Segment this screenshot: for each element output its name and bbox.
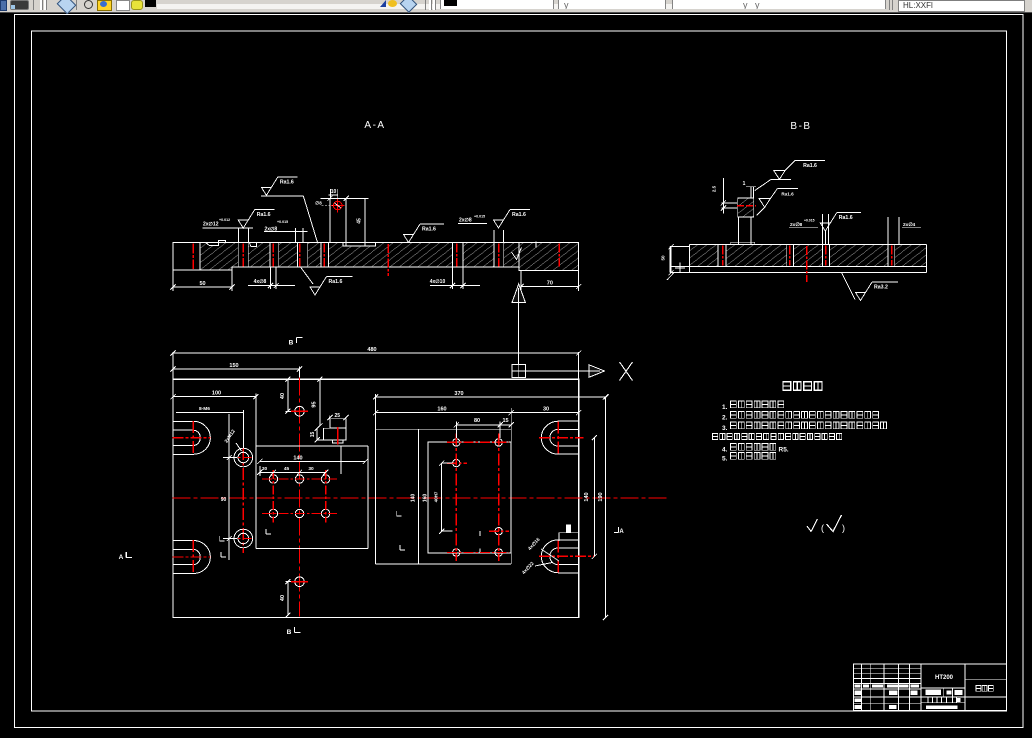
- svg-text:2x∅8: 2x∅8: [790, 222, 803, 228]
- svg-text:3.: 3.: [722, 425, 728, 432]
- B-B plate outline: [689, 244, 926, 246]
- B-B left dim 50: [670, 247, 672, 273]
- A-A dim 4x8: [269, 267, 271, 289]
- B-B dim 2x8: [821, 214, 823, 245]
- svg-text:50: 50: [199, 281, 205, 287]
- svg-text:160: 160: [423, 494, 429, 503]
- toolbar separator: [33, 0, 34, 10]
- svg-text:70: 70: [547, 281, 553, 287]
- A-A dim 70: [520, 271, 522, 292]
- toolbar separator: [425, 0, 426, 10]
- toolbar icon: black swatch: [145, 0, 156, 7]
- svg-text:Ra1.6: Ra1.6: [803, 163, 817, 169]
- svg-text:Ra1.6: Ra1.6: [839, 215, 853, 221]
- svg-text:30: 30: [262, 466, 268, 472]
- A-A dim 50: [172, 270, 174, 291]
- svg-text:80: 80: [474, 418, 480, 424]
- svg-text:30: 30: [308, 466, 314, 472]
- svg-text:A-A: A-A: [364, 120, 385, 131]
- toolbar combo 2: [558, 0, 666, 9]
- plan small boss rect: [330, 419, 346, 428]
- plan left slot top: [173, 421, 211, 454]
- surface symbol Ra1.6 #3 below bar: [301, 267, 314, 284]
- toolbar icon: yellow-blue: [97, 0, 112, 11]
- svg-text:160: 160: [437, 406, 446, 412]
- B-B hatched cut area: [689, 245, 926, 267]
- plan dim 95 vertical: [319, 379, 321, 426]
- svg-text:15: 15: [502, 418, 508, 424]
- toolbar separator: [889, 0, 890, 10]
- plan view outline: [173, 379, 579, 617]
- svg-text:480: 480: [367, 347, 376, 353]
- svg-text:Ra1.6: Ra1.6: [257, 212, 271, 218]
- svg-text:HT200: HT200: [935, 675, 954, 681]
- svg-text:(: (: [821, 523, 824, 533]
- svg-text:40: 40: [280, 393, 286, 399]
- toolbar combo with color swatch: [440, 0, 554, 9]
- svg-text:4x∅10: 4x∅10: [430, 279, 446, 285]
- plan dim 40 bottom: [287, 582, 289, 616]
- svg-text:140: 140: [293, 456, 302, 462]
- svg-text:1.: 1.: [722, 404, 728, 411]
- toolbar icon: circle: [84, 0, 93, 9]
- svg-text:2.: 2.: [722, 415, 728, 422]
- datum mark A right: [614, 532, 619, 534]
- svg-text:): ): [842, 523, 845, 533]
- title block left grid: [860, 664, 862, 711]
- surface symbol Ra1.6 #4: [404, 235, 414, 243]
- tech req line 4: [713, 434, 718, 440]
- plan bottom hole: [295, 577, 305, 587]
- plan dim 370: [376, 396, 607, 398]
- B-B pedestal boss: [737, 217, 739, 245]
- A-A left block divider: [199, 243, 201, 271]
- svg-text:2xM12: 2xM12: [224, 428, 237, 444]
- toolbar icon: white page: [116, 0, 130, 11]
- svg-text:140: 140: [584, 492, 590, 501]
- A-A top recess notch 3: [343, 243, 375, 246]
- plan dim 480: [172, 352, 174, 379]
- svg-text:4x∅22: 4x∅22: [521, 561, 536, 576]
- plan dim 150: [299, 367, 301, 378]
- plan main horizontal centerline: [173, 497, 669, 499]
- toolbar icon: blue diamond 2: [400, 0, 418, 13]
- svg-text:370: 370: [454, 391, 463, 397]
- plan dim 15 vertical: [316, 428, 318, 440]
- A-A section plate outline: [173, 243, 579, 271]
- svg-text:2x∅8: 2x∅8: [459, 218, 472, 224]
- plan raised block: [255, 394, 257, 549]
- A-A top notch 2 (counterbore): [250, 243, 256, 247]
- B-B red centerlines: [722, 246, 724, 266]
- svg-text:A: A: [619, 529, 624, 535]
- title block right cells: [965, 678, 1007, 680]
- plan bolt centerline: [242, 410, 244, 448]
- datum target square above bottom-right slot: [566, 525, 571, 533]
- A-A projected hole feature: [329, 198, 331, 242]
- svg-text:90: 90: [221, 497, 227, 503]
- svg-text:4.: 4.: [722, 447, 728, 454]
- svg-text:4x∅16: 4x∅16: [527, 537, 542, 552]
- svg-text:Ra1.6: Ra1.6: [422, 227, 436, 233]
- B-B surface symbol Ra1.6 #2: [759, 198, 771, 207]
- corner marks: [266, 533, 271, 535]
- A-A hatched cut area: [200, 243, 579, 271]
- UCS Y axis line: [518, 303, 520, 365]
- plan bolt hole at y=538.5: [234, 529, 253, 548]
- svg-text:190: 190: [598, 492, 604, 501]
- svg-text:5.: 5.: [722, 456, 728, 463]
- toolbar icon: arrow star: [380, 0, 386, 7]
- B-B surface symbol Ra3.2 bottom: [842, 273, 856, 300]
- toolbar combobox: [898, 0, 1025, 12]
- svg-text:8-M6: 8-M6: [199, 406, 210, 412]
- UCS origin box: [512, 365, 526, 378]
- plan pocket inner rect: [428, 442, 511, 553]
- A-A red centerlines: [192, 244, 194, 269]
- A-A red hole circle: [333, 201, 342, 210]
- plan dim 90 vertical: [223, 457, 237, 459]
- B-B left small dim 2.5: [722, 178, 724, 214]
- B-B dim 2x4: [887, 217, 889, 245]
- toolbar highlight band: [157, 4, 877, 9]
- svg-text:40: 40: [280, 595, 286, 601]
- svg-text:Ra1.6: Ra1.6: [512, 212, 526, 218]
- svg-text:+0.015: +0.015: [474, 215, 485, 219]
- B-B surface symbol Ra1.6 #3: [820, 223, 830, 231]
- plan right slot top: [541, 421, 578, 454]
- application toolbar strip (cropped): [0, 0, 1032, 13]
- svg-text:100: 100: [212, 391, 221, 397]
- svg-text:Ra1.6: Ra1.6: [329, 279, 343, 285]
- plan bolt hole at y=457.5: [234, 448, 253, 467]
- svg-text:2x∅4: 2x∅4: [903, 222, 916, 228]
- plan pocket holes: [453, 439, 460, 446]
- A-A small check mark at step: [512, 248, 522, 260]
- toolbar icon: blue diamond: [57, 0, 77, 14]
- A-A top notch 1 with raised tab: [207, 243, 219, 245]
- svg-text:45: 45: [284, 466, 290, 472]
- toolbar icon fragment: open: [0, 0, 7, 11]
- svg-text:Ra1.6: Ra1.6: [280, 179, 294, 185]
- svg-text:B-B: B-B: [790, 121, 811, 132]
- B-B surface symbol Ra1.6 #1: [755, 179, 771, 190]
- svg-text:∅8: ∅8: [315, 201, 322, 206]
- svg-text:2x∅12: 2x∅12: [203, 222, 219, 228]
- svg-text:10: 10: [331, 189, 337, 195]
- svg-text:+0.012: +0.012: [219, 218, 230, 222]
- svg-text:A: A: [119, 554, 124, 561]
- svg-text:95: 95: [312, 401, 318, 407]
- title block part name: [976, 686, 981, 692]
- svg-text:1: 1: [743, 181, 746, 187]
- B-B hole gaps: [718, 245, 726, 266]
- plan top hole: [295, 406, 305, 416]
- svg-text:Ra1.6: Ra1.6: [781, 191, 794, 196]
- plan block hole pattern: [269, 475, 277, 483]
- UCS X label: [620, 362, 633, 381]
- A-A vertical dim 45: [364, 198, 366, 246]
- technical requirements title: [783, 382, 791, 391]
- svg-text:45: 45: [357, 218, 363, 224]
- toolbar separator: [76, 0, 77, 10]
- svg-text:+0.015: +0.015: [277, 220, 288, 224]
- A-A right step edge: [518, 242, 520, 271]
- title block text blobs: [855, 684, 861, 687]
- svg-text:R5.: R5.: [779, 447, 789, 454]
- svg-text:150: 150: [229, 363, 238, 369]
- plan dim 190 right: [604, 397, 606, 618]
- UCS X arrowhead: [589, 365, 605, 378]
- plan right slot bottom: [541, 540, 578, 573]
- finish mark small check: [807, 519, 818, 532]
- toolbar combo 3: [672, 0, 886, 9]
- svg-text:30: 30: [543, 406, 549, 412]
- surface symbol Ra1.6 #2: [238, 220, 248, 228]
- plan dim 140 right: [593, 438, 595, 557]
- svg-text:4x∅8: 4x∅8: [254, 279, 267, 285]
- toolbar icon fragment: printer: [10, 0, 29, 10]
- surface symbol Ra1.6 #1: [261, 187, 271, 195]
- plan pocket outline: [375, 394, 377, 564]
- plan dim 80 / 15: [455, 422, 457, 439]
- svg-text:15: 15: [310, 432, 316, 438]
- svg-text:25: 25: [335, 413, 341, 419]
- svg-text:+0.015: +0.015: [804, 219, 815, 223]
- A-A dim 4x10: [452, 267, 454, 289]
- plan left slot bottom: [173, 541, 211, 574]
- A-A hole gaps: [238, 243, 248, 267]
- plan dim 40 vertical: [287, 379, 289, 411]
- title block middle cells: [921, 687, 965, 689]
- plan dims 30 45 30: [259, 466, 261, 476]
- title block outline: [854, 664, 1007, 711]
- svg-text:2.5: 2.5: [712, 185, 717, 192]
- plan dim 160 / 30: [375, 397, 377, 429]
- plan dim 100: [173, 396, 256, 398]
- toolbar icon: yellow blob: [131, 0, 143, 10]
- svg-text:Ra3.2: Ra3.2: [874, 285, 888, 291]
- plan pocket inner dim 40: [441, 463, 443, 531]
- UCS Y arrowhead: [512, 284, 525, 303]
- svg-text:140: 140: [411, 494, 417, 503]
- svg-text:B: B: [289, 340, 294, 347]
- plan main vertical centerline: [299, 378, 301, 617]
- svg-text:50: 50: [661, 255, 666, 261]
- svg-text:B: B: [287, 629, 292, 636]
- UCS X axis line: [526, 370, 589, 372]
- surface symbol Ra1.6 #5: [494, 220, 504, 228]
- plan dim 140: [260, 461, 366, 463]
- svg-text:40H7: 40H7: [434, 491, 439, 502]
